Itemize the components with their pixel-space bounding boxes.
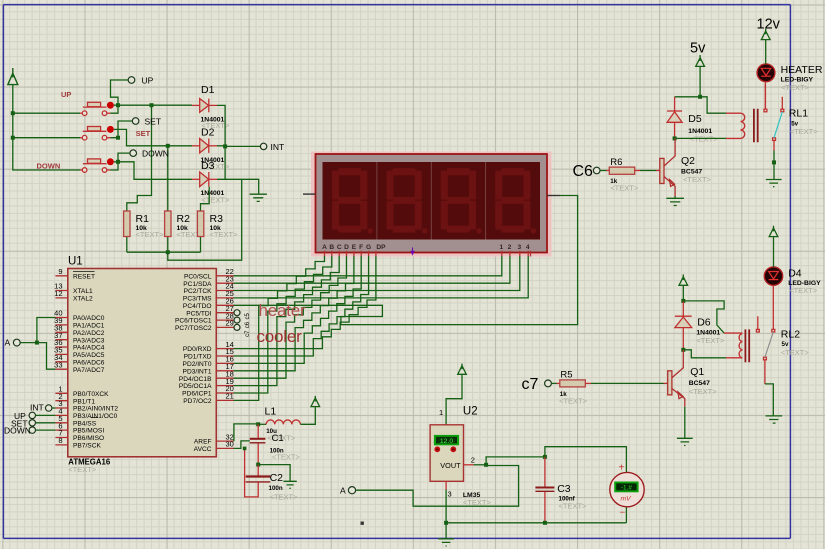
- svg-text:PC4/TDO: PC4/TDO: [183, 303, 212, 310]
- svg-text:c5: c5: [245, 313, 251, 320]
- power arrow 12v: [761, 29, 770, 40]
- diode D6: [675, 301, 692, 350]
- svg-text:UP: UP: [61, 90, 71, 99]
- relay RL1 core: [754, 109, 758, 143]
- svg-text:PD3/INT1: PD3/INT1: [183, 368, 212, 375]
- button UP: [80, 102, 111, 115]
- power arrow above U2: [458, 364, 467, 375]
- svg-text:HEATER: HEATER: [781, 64, 823, 76]
- wire UP row left: [13, 112, 80, 114]
- inductor L1: [258, 423, 266, 425]
- ground RL1: [766, 180, 782, 187]
- wire segment D to PD4: [234, 256, 347, 378]
- relay RL1 blade: [774, 112, 782, 138]
- node D6 bottom: [681, 348, 685, 352]
- svg-text:PB6/MISO: PB6/MISO: [73, 435, 104, 442]
- ground near C2: [283, 481, 296, 488]
- svg-text:R6: R6: [610, 157, 622, 168]
- svg-text:C1: C1: [272, 433, 284, 444]
- relay RL1 coil: [726, 113, 745, 138]
- svg-text:R2: R2: [177, 213, 191, 225]
- power arrow VCC top-left: [8, 68, 18, 85]
- svg-text:<TEXT>: <TEXT>: [559, 397, 588, 406]
- svg-text:PB0/T0XCK: PB0/T0XCK: [73, 391, 109, 398]
- wire U2 ground stub: [445, 523, 447, 539]
- node U2 vout: [484, 463, 488, 467]
- svg-text:3: 3: [517, 244, 521, 251]
- svg-text:1: 1: [499, 244, 503, 251]
- svg-text:<TEXT>: <TEXT>: [789, 286, 818, 295]
- wire D3 node to resistor rail: [127, 179, 242, 260]
- node C3 top: [543, 455, 547, 459]
- svg-text:<TEXT>: <TEXT>: [201, 195, 230, 204]
- wire digit4 to PC3: [234, 256, 529, 298]
- button DOWN: [80, 159, 111, 172]
- svg-text:PD4/OC1B: PD4/OC1B: [179, 376, 212, 383]
- relay RL2 core: [745, 329, 749, 362]
- relay RL2 blade: [765, 332, 773, 357]
- svg-text:<TEXT>: <TEXT>: [790, 127, 819, 136]
- node R2 tap: [166, 144, 170, 148]
- svg-text:+: +: [619, 463, 625, 474]
- svg-text:PA2/ADC2: PA2/ADC2: [73, 330, 105, 337]
- svg-text:12: 12: [54, 289, 62, 298]
- transistor Q2: [656, 138, 675, 196]
- node D5 bottom: [673, 136, 677, 140]
- node C1-C2: [256, 463, 260, 467]
- svg-text:-1.#: -1.#: [621, 485, 632, 492]
- svg-text:<TEXT>: <TEXT>: [781, 348, 810, 357]
- U1 right pin stubs: [216, 276, 233, 449]
- wire Q1 emitter to ground: [684, 407, 686, 439]
- wire DOWN button row: [111, 162, 193, 180]
- display digit 1 segments: [332, 168, 373, 233]
- U2 adjust buttons: [434, 446, 440, 452]
- svg-text:PA1/ADC1: PA1/ADC1: [73, 323, 105, 330]
- svg-text:<TEXT>: <TEXT>: [136, 230, 165, 239]
- terminal c7 (PC7): [234, 324, 240, 330]
- power arrow 5v: [696, 55, 705, 66]
- node rail-SET junction: [11, 136, 15, 140]
- svg-text:BC547: BC547: [689, 380, 710, 387]
- svg-text:Q1: Q1: [690, 366, 704, 378]
- node rail-UP junction: [11, 111, 15, 115]
- wire L1 right to arrow: [300, 407, 315, 425]
- diode D2: [192, 139, 217, 153]
- display bottom pin stubs: [325, 251, 531, 257]
- svg-text:21: 21: [226, 392, 234, 401]
- wire R5 to Q1 base: [591, 382, 664, 384]
- wire segment B to PD6: [234, 256, 332, 393]
- wire left rail: [13, 84, 80, 170]
- display digit 2 segments: [387, 168, 428, 233]
- wire segment DP to PD0: [234, 256, 376, 349]
- wire ground rail bottom: [446, 506, 626, 523]
- svg-text:PD0/RXD: PD0/RXD: [183, 346, 212, 353]
- svg-text:PB7/SCK: PB7/SCK: [73, 443, 101, 450]
- wire A to PA0 and PA7: [20, 318, 55, 370]
- terminal c6 (PC6): [234, 317, 240, 323]
- svg-text:29: 29: [226, 319, 234, 328]
- wire D1 cathode bus: [217, 105, 260, 180]
- wire A to U2 vout node: [356, 466, 519, 507]
- relay RL2 switch: [756, 315, 774, 384]
- diode D5: [667, 97, 682, 139]
- svg-text:100n: 100n: [269, 485, 283, 492]
- svg-text:INT: INT: [30, 403, 44, 413]
- display cell dividers: [377, 162, 486, 240]
- svg-text:PB4/SS: PB4/SS: [73, 420, 97, 427]
- svg-text:30: 30: [226, 440, 234, 449]
- wire R1 riser: [127, 105, 152, 211]
- U2 pin3: [445, 481, 447, 489]
- svg-text:AREF: AREF: [194, 439, 212, 446]
- power arrow above D6: [679, 274, 688, 285]
- svg-text:R5: R5: [560, 369, 572, 380]
- svg-text:D6: D6: [697, 317, 711, 329]
- terminal SET: [118, 121, 132, 138]
- wire UP button to node: [111, 105, 193, 113]
- resistor R6: [600, 170, 607, 172]
- wire segment G to PD1: [234, 256, 369, 356]
- svg-text:2: 2: [508, 244, 512, 251]
- svg-text:PA5/ADC5: PA5/ADC5: [73, 352, 105, 359]
- terminal UP: [111, 80, 129, 105]
- wire R6 to Q2 base: [640, 170, 656, 172]
- svg-text:RL1: RL1: [789, 108, 808, 120]
- svg-text:DOWN: DOWN: [4, 426, 31, 436]
- node R2 bottom: [166, 250, 170, 254]
- svg-text:PA6/ADC6: PA6/ADC6: [73, 359, 105, 366]
- svg-text:D4: D4: [788, 268, 802, 280]
- node A junction: [35, 341, 39, 345]
- capacitor C1: [257, 424, 259, 438]
- U2 LCD readout: [434, 435, 459, 445]
- node rail U2: [444, 521, 448, 525]
- violet marker under display: [410, 251, 414, 256]
- svg-text:DOWN: DOWN: [37, 162, 61, 171]
- svg-text:−: −: [620, 508, 626, 519]
- 7-segment display outer: [311, 152, 552, 257]
- node btn2: [116, 136, 120, 140]
- svg-text:D: D: [344, 244, 349, 251]
- svg-text:2: 2: [471, 455, 475, 464]
- resistor R3: [201, 187, 210, 253]
- svg-text:9: 9: [58, 267, 62, 276]
- diode D3: [192, 172, 217, 187]
- wire segment F to PD2: [234, 256, 362, 363]
- svg-text:PC7/TOSC2: PC7/TOSC2: [175, 325, 212, 332]
- svg-text:SET: SET: [136, 129, 151, 138]
- svg-text:c7: c7: [245, 330, 251, 337]
- svg-text:PC1/SDA: PC1/SDA: [183, 281, 212, 288]
- svg-text:12v: 12v: [757, 17, 781, 33]
- svg-text:<TEXT>: <TEXT>: [559, 501, 588, 510]
- wire SET button row: [111, 129, 193, 145]
- svg-text:C2: C2: [270, 472, 284, 484]
- svg-text:PB1/T1: PB1/T1: [73, 398, 95, 405]
- svg-text:A: A: [322, 244, 327, 251]
- wire LED to switch: [764, 82, 766, 110]
- wire C3 node to voltmeter plus: [545, 447, 627, 473]
- svg-text:PA4/ADC4: PA4/ADC4: [73, 345, 105, 352]
- svg-text:U1: U1: [68, 256, 83, 268]
- svg-text:PA0/ADC0: PA0/ADC0: [73, 315, 105, 322]
- wire D6 node to RL2 coil top: [683, 301, 724, 333]
- svg-text:heater: heater: [259, 301, 307, 320]
- wire R2 riser: [167, 146, 169, 211]
- svg-text:DP: DP: [376, 244, 386, 251]
- relay RL2 coil: [724, 333, 742, 358]
- svg-text:A: A: [340, 485, 346, 495]
- voltmeter: [610, 472, 644, 506]
- svg-text:L1: L1: [265, 406, 277, 418]
- svg-text:XTAL1: XTAL1: [73, 288, 93, 295]
- ground U2: [438, 539, 454, 546]
- svg-text:INT: INT: [271, 142, 285, 152]
- svg-text:U2: U2: [463, 406, 478, 418]
- svg-text:E: E: [352, 244, 357, 251]
- wire D6 bottom to RL2 coil bottom: [683, 350, 726, 358]
- svg-text:D3: D3: [201, 160, 215, 172]
- resistor R1: [126, 237, 128, 253]
- wire RL1 switch to ground: [773, 151, 775, 180]
- stray marker dot: [361, 522, 364, 525]
- wire digit2 to PC1: [234, 256, 510, 283]
- node btn1: [116, 103, 120, 107]
- svg-text:PD6/ICP1: PD6/ICP1: [182, 391, 212, 398]
- wire D5 node to relay bottom: [675, 137, 726, 139]
- relay RL1 switch: [764, 84, 784, 151]
- U1 left pin stubs: [55, 276, 67, 445]
- svg-text:R1: R1: [136, 213, 150, 225]
- svg-text:mV: mV: [621, 496, 633, 503]
- svg-text:C3: C3: [557, 483, 571, 495]
- terminal c5 (PC5): [234, 310, 240, 316]
- wire D4 to RL2 switch: [772, 286, 774, 316]
- wire arrow to D4: [773, 237, 775, 267]
- wire 12v to LED: [765, 40, 767, 64]
- wire RL2 switch to ground: [765, 384, 773, 416]
- svg-text:cooler: cooler: [257, 327, 303, 346]
- wire SET row left: [13, 137, 80, 139]
- svg-text:<TEXT>: <TEXT>: [696, 336, 725, 345]
- svg-text:PB3/AIN1/OC0: PB3/AIN1/OC0: [73, 413, 118, 420]
- svg-text:PD5/OC1A: PD5/OC1A: [179, 383, 212, 390]
- wire arrow to U2 pin1: [446, 374, 462, 425]
- transistor Q1: [664, 350, 685, 407]
- svg-text:c6: c6: [245, 321, 251, 328]
- ground Q2: [666, 196, 684, 205]
- svg-text:PC0/SCL: PC0/SCL: [184, 273, 212, 280]
- svg-text:c7: c7: [522, 376, 539, 393]
- svg-text:<TEXT>: <TEXT>: [210, 230, 239, 239]
- svg-text:PC6/TOSC1: PC6/TOSC1: [175, 318, 212, 325]
- node L1 left: [256, 422, 260, 426]
- svg-text:PB5/MOSI: PB5/MOSI: [73, 428, 104, 435]
- wire digit3 to PC2: [234, 256, 520, 291]
- node rail C3: [543, 521, 547, 525]
- wire PC4 to display right pin: [234, 196, 578, 325]
- wire segment A to PD7: [234, 256, 325, 400]
- svg-text:PD7/OC2: PD7/OC2: [183, 398, 212, 405]
- svg-text:1: 1: [439, 408, 443, 417]
- wire D2 to bus: [217, 145, 225, 147]
- wire segment E to PD3: [234, 256, 354, 371]
- display digit 4 segments: [495, 168, 536, 233]
- svg-text:<TEXT>: <TEXT>: [781, 83, 810, 92]
- ground button bank: [250, 194, 267, 201]
- svg-text:<TEXT>: <TEXT>: [270, 493, 299, 502]
- svg-text:PC3/TMS: PC3/TMS: [183, 296, 212, 303]
- svg-text:A: A: [5, 338, 11, 348]
- svg-text:PD2/INT0: PD2/INT0: [183, 361, 212, 368]
- svg-text:R3: R3: [210, 213, 224, 225]
- svg-text:PB2/AIN0/INT2: PB2/AIN0/INT2: [73, 406, 118, 413]
- wire vout node to C3: [486, 457, 545, 465]
- resistor R2: [167, 237, 169, 253]
- node R1 tap: [150, 103, 154, 107]
- svg-text:<TEXT>: <TEXT>: [610, 183, 639, 192]
- node 5v junction: [698, 95, 702, 99]
- svg-text:5v: 5v: [690, 41, 706, 57]
- svg-text:4: 4: [526, 244, 530, 251]
- svg-text:<TEXT>: <TEXT>: [272, 453, 301, 462]
- display dark area: [323, 162, 541, 240]
- svg-text:Q2: Q2: [681, 155, 695, 167]
- svg-text:D2: D2: [201, 126, 215, 138]
- display digit 3 segments: [441, 168, 482, 233]
- display left pin stub: [303, 193, 316, 195]
- svg-text:PC5/TDI: PC5/TDI: [186, 310, 211, 317]
- node btn3: [116, 160, 120, 164]
- svg-text:SET: SET: [145, 117, 162, 127]
- terminal DOWN: [118, 153, 130, 162]
- svg-text:C: C: [337, 244, 342, 251]
- LED D4: [764, 267, 782, 285]
- wire arrow to D6 node: [682, 285, 684, 301]
- svg-text:VOUT: VOUT: [440, 461, 461, 470]
- svg-text:RESET: RESET: [73, 273, 95, 280]
- power arrow above D4: [769, 226, 778, 237]
- wire D3 to ground link: [217, 179, 259, 194]
- button SET: [80, 127, 111, 141]
- display right pin stub: [547, 195, 560, 197]
- LED HEATER: [757, 64, 775, 82]
- power arrow at L1: [311, 396, 320, 407]
- wire AREF to L1: [234, 424, 259, 441]
- node RL1 switch: [772, 160, 776, 164]
- svg-text:PA3/ADC3: PA3/ADC3: [73, 337, 105, 344]
- svg-text:AVCC: AVCC: [194, 446, 212, 453]
- terminal INT: [260, 143, 266, 149]
- svg-text:PC2/TCK: PC2/TCK: [184, 288, 212, 295]
- IC U1 ATMEGA16 body: [68, 269, 217, 457]
- svg-text:UP: UP: [142, 76, 154, 86]
- svg-text:<TEXT>: <TEXT>: [689, 387, 718, 396]
- diode D1: [192, 99, 217, 113]
- svg-text:33: 33: [54, 360, 62, 369]
- svg-text:D5: D5: [688, 113, 702, 125]
- wire segment C to PD5: [234, 256, 340, 386]
- node INT tap: [223, 144, 227, 148]
- svg-text:G: G: [366, 244, 371, 251]
- svg-text:D1: D1: [201, 84, 215, 96]
- svg-text:RL2: RL2: [781, 329, 800, 341]
- wire AVCC to C1: [234, 441, 250, 449]
- svg-text:F: F: [359, 244, 363, 251]
- wire digit1 to PC0: [234, 256, 502, 276]
- svg-text:XTAL2: XTAL2: [73, 296, 93, 303]
- svg-text:8: 8: [58, 436, 62, 445]
- wire C1C2 node to small ground: [258, 465, 290, 482]
- svg-text:DOWN: DOWN: [142, 149, 169, 159]
- capacitor C3: [544, 457, 546, 487]
- svg-text:PA7/ADC7: PA7/ADC7: [73, 367, 105, 374]
- svg-text:<TEXT>: <TEXT>: [683, 175, 712, 184]
- ground RL2: [766, 416, 783, 423]
- svg-text:B: B: [329, 244, 334, 251]
- resistor R5: [551, 382, 556, 384]
- node D6 top: [681, 299, 685, 303]
- U2 pin2: [464, 464, 474, 466]
- ground Q1: [677, 438, 693, 445]
- svg-text:PD1/TXD: PD1/TXD: [184, 354, 212, 361]
- capacitor C2: [257, 465, 259, 476]
- wire 5v to node: [675, 66, 726, 113]
- svg-text:C6: C6: [573, 163, 594, 180]
- svg-text:3: 3: [448, 489, 452, 498]
- svg-text:<TEXT>: <TEXT>: [68, 465, 97, 474]
- svg-text:12.0: 12.0: [440, 438, 453, 445]
